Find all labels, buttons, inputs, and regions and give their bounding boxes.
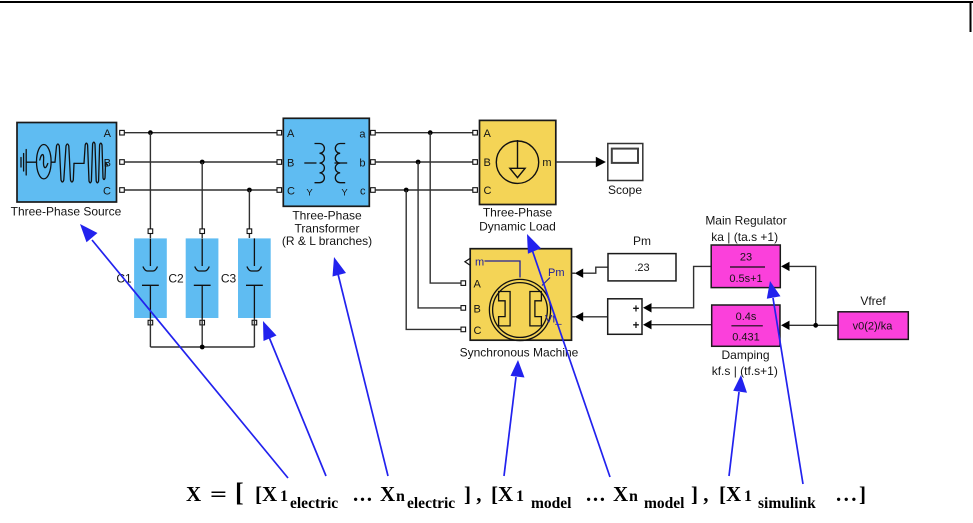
blue annotation arrow to dynamic load [527,234,610,477]
wire vfref junction to main regulator [789,266,815,325]
svg-text:0.4s: 0.4s [736,311,757,323]
blue annotation arrow to main regulator block [767,281,803,484]
svg-text:C: C [287,186,295,198]
wire phase C source to transformer [124,189,277,191]
output port square A of source [120,130,125,135]
svg-text:b: b [359,158,365,170]
wire phase c transformer to load [375,189,473,191]
svg-text:Pm: Pm [548,267,565,279]
port square C3 top [247,229,252,234]
port square C2 top [200,229,205,234]
input port squares of transformer [277,130,282,135]
arrowhead into machine Pm [572,272,575,274]
svg-text:Three-Phase: Three-Phase [483,205,553,219]
svg-text:B: B [474,304,481,316]
frame right border [970,1,972,32]
wire phase B source to transformer [124,161,277,163]
block Scope [608,144,643,181]
wire vfref to damping [789,324,838,326]
blue annotation arrow to synchronous machine [504,360,525,476]
input port squares of load [473,130,478,135]
svg-text:C: C [484,185,492,197]
output port square C of source [120,188,125,193]
svg-text:+: + [633,320,640,332]
bus wire joining capacitor bottoms [150,346,254,348]
port square C1 bottom [148,320,153,325]
junction b to machine B [416,160,421,165]
svg-text:+: + [633,303,640,315]
wire constant .23 to machine Pm [583,267,608,273]
svg-text:B: B [104,158,111,170]
block Three-Phase Dynamic Load [480,120,556,204]
svg-text:0.5s+1: 0.5s+1 [729,273,762,285]
arrowhead into damping [781,321,790,330]
svg-text:c: c [360,186,366,198]
wire phase a transformer to load [375,132,473,134]
output port square B of source [120,160,125,165]
junction c to machine C [404,188,409,193]
wire load m to scope [556,161,597,163]
arrowhead into scope [596,157,606,167]
svg-text:B: B [287,158,294,170]
right channel bracket [530,292,542,326]
capacitor C1 [134,238,167,318]
arrowhead into sum input 1 [643,303,652,312]
wire damping to sum [651,324,711,326]
svg-text:A: A [287,128,295,140]
svg-text:a: a [359,129,366,141]
sum block [608,299,642,335]
wire b down to machine B [418,162,461,308]
svg-text:Damping: Damping [721,348,769,362]
port square C3 bottom [252,320,257,325]
svg-text:Synchronous Machine: Synchronous Machine [460,346,579,360]
capacitor C2 [186,238,219,318]
blue annotation arrow to damping label [729,375,747,476]
svg-text:Dynamic Load: Dynamic Load [479,219,556,233]
svg-text:C: C [103,186,111,198]
wire c down to machine C [406,190,461,329]
svg-text:Pm: Pm [633,234,651,248]
blue annotation arrow to C3 [263,321,326,476]
wire sum to machine Vf [583,316,608,318]
left channel bracket [499,292,511,326]
wire phase A source to transformer [124,132,277,134]
block Synchronous Machine [465,249,572,341]
svg-text:A: A [474,279,482,291]
machine icon circles [489,279,550,340]
arrowhead into sum input 2 [643,320,652,329]
svg-text:(R & L branches): (R & L branches) [282,234,372,248]
block Main Regulator [711,245,780,288]
wire drop to C2 [201,162,203,238]
svg-text:B: B [484,157,491,169]
svg-text:Vfref: Vfref [860,294,886,308]
svg-text:ka | (ta.s +1): ka | (ta.s +1) [711,230,778,244]
svg-text:23: 23 [740,252,752,264]
port square C1 top [148,229,153,234]
wire C1 bottom to bus [149,318,151,347]
junction vfref wire [813,323,818,328]
port square C2 bottom [200,320,205,325]
svg-text:A: A [104,128,112,140]
wire drop to C1 [149,133,151,238]
block Three-Phase Transformer [283,118,369,206]
unconnected output chevron m [465,258,470,265]
junction phase A to C1 [148,130,153,135]
svg-text:A: A [484,128,492,140]
svg-text:Three-Phase Source: Three-Phase Source [11,205,122,219]
block Vfref [838,312,908,340]
svg-text:m: m [475,257,484,269]
blue annotation arrow to transformer [333,257,389,476]
svg-text:Main Regulator: Main Regulator [705,214,786,228]
wire C3 bottom to bus [253,318,255,347]
svg-text:Y: Y [341,188,348,199]
svg-text:Y: Y [306,188,313,199]
block Three-Phase Source [17,123,117,203]
svg-text:Scope: Scope [608,183,642,197]
arrowhead into main regulator [781,262,790,271]
junction on bus [200,345,205,350]
svg-text:C3: C3 [221,272,237,286]
constant block .23 [608,254,676,281]
wire main regulator to sum [651,266,711,307]
wire a down to machine A [430,133,461,283]
svg-text:.23: .23 [634,262,649,274]
blue annotation arrow to Three-Phase Source [80,224,288,478]
internal signal line m [485,261,521,278]
junction phase B to C2 [200,160,205,165]
output port squares of transformer [371,130,376,135]
svg-text:0.431: 0.431 [732,332,760,344]
svg-text:m: m [542,157,551,169]
junction a to machine A [428,130,433,135]
svg-text:kf.s | (tf.s+1): kf.s | (tf.s+1) [712,364,778,378]
svg-text:v0(2)/ka: v0(2)/ka [853,321,894,333]
capacitor C3 [238,238,271,318]
frame top border [0,1,973,3]
svg-text:X=[[X1electric...Xnelectric] ,: X=[[X1electric...Xnelectric] ,[X1model..… [186,478,868,512]
machine input port squares [461,281,466,286]
svg-text:C2: C2 [168,272,184,286]
arrowhead into machine Vf [572,316,575,318]
junction phase C to C3 [247,188,252,193]
wire C2 bottom to bus [201,318,203,347]
svg-text:C: C [474,325,482,337]
wire drop to C3 [248,190,250,238]
wire phase b transformer to load [375,161,473,163]
block Damping [712,305,780,346]
